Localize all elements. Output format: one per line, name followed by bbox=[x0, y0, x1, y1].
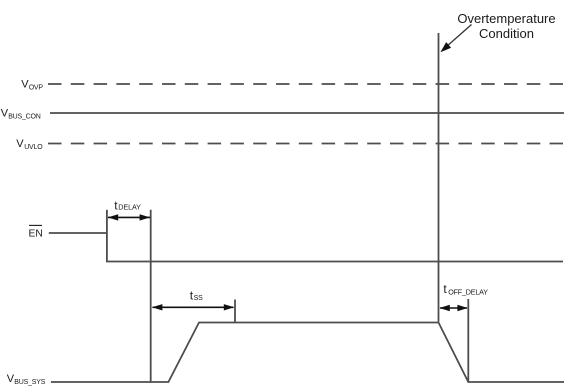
svg-text:BUS_CON: BUS_CON bbox=[8, 113, 41, 120]
svg-text:DELAY: DELAY bbox=[118, 202, 141, 211]
svg-text:OVP: OVP bbox=[29, 85, 44, 92]
svg-text:Overtemperature: Overtemperature bbox=[457, 11, 555, 26]
svg-text:t: t bbox=[443, 282, 447, 296]
svg-text:BUS_SYS: BUS_SYS bbox=[14, 379, 45, 386]
svg-text:SS: SS bbox=[194, 295, 203, 302]
svg-text:V: V bbox=[16, 138, 24, 150]
svg-text:UVLO: UVLO bbox=[24, 144, 43, 151]
svg-text:OFF_DELAY: OFF_DELAY bbox=[448, 288, 488, 297]
svg-text:EN: EN bbox=[29, 229, 43, 240]
svg-text:Condition: Condition bbox=[479, 26, 534, 41]
